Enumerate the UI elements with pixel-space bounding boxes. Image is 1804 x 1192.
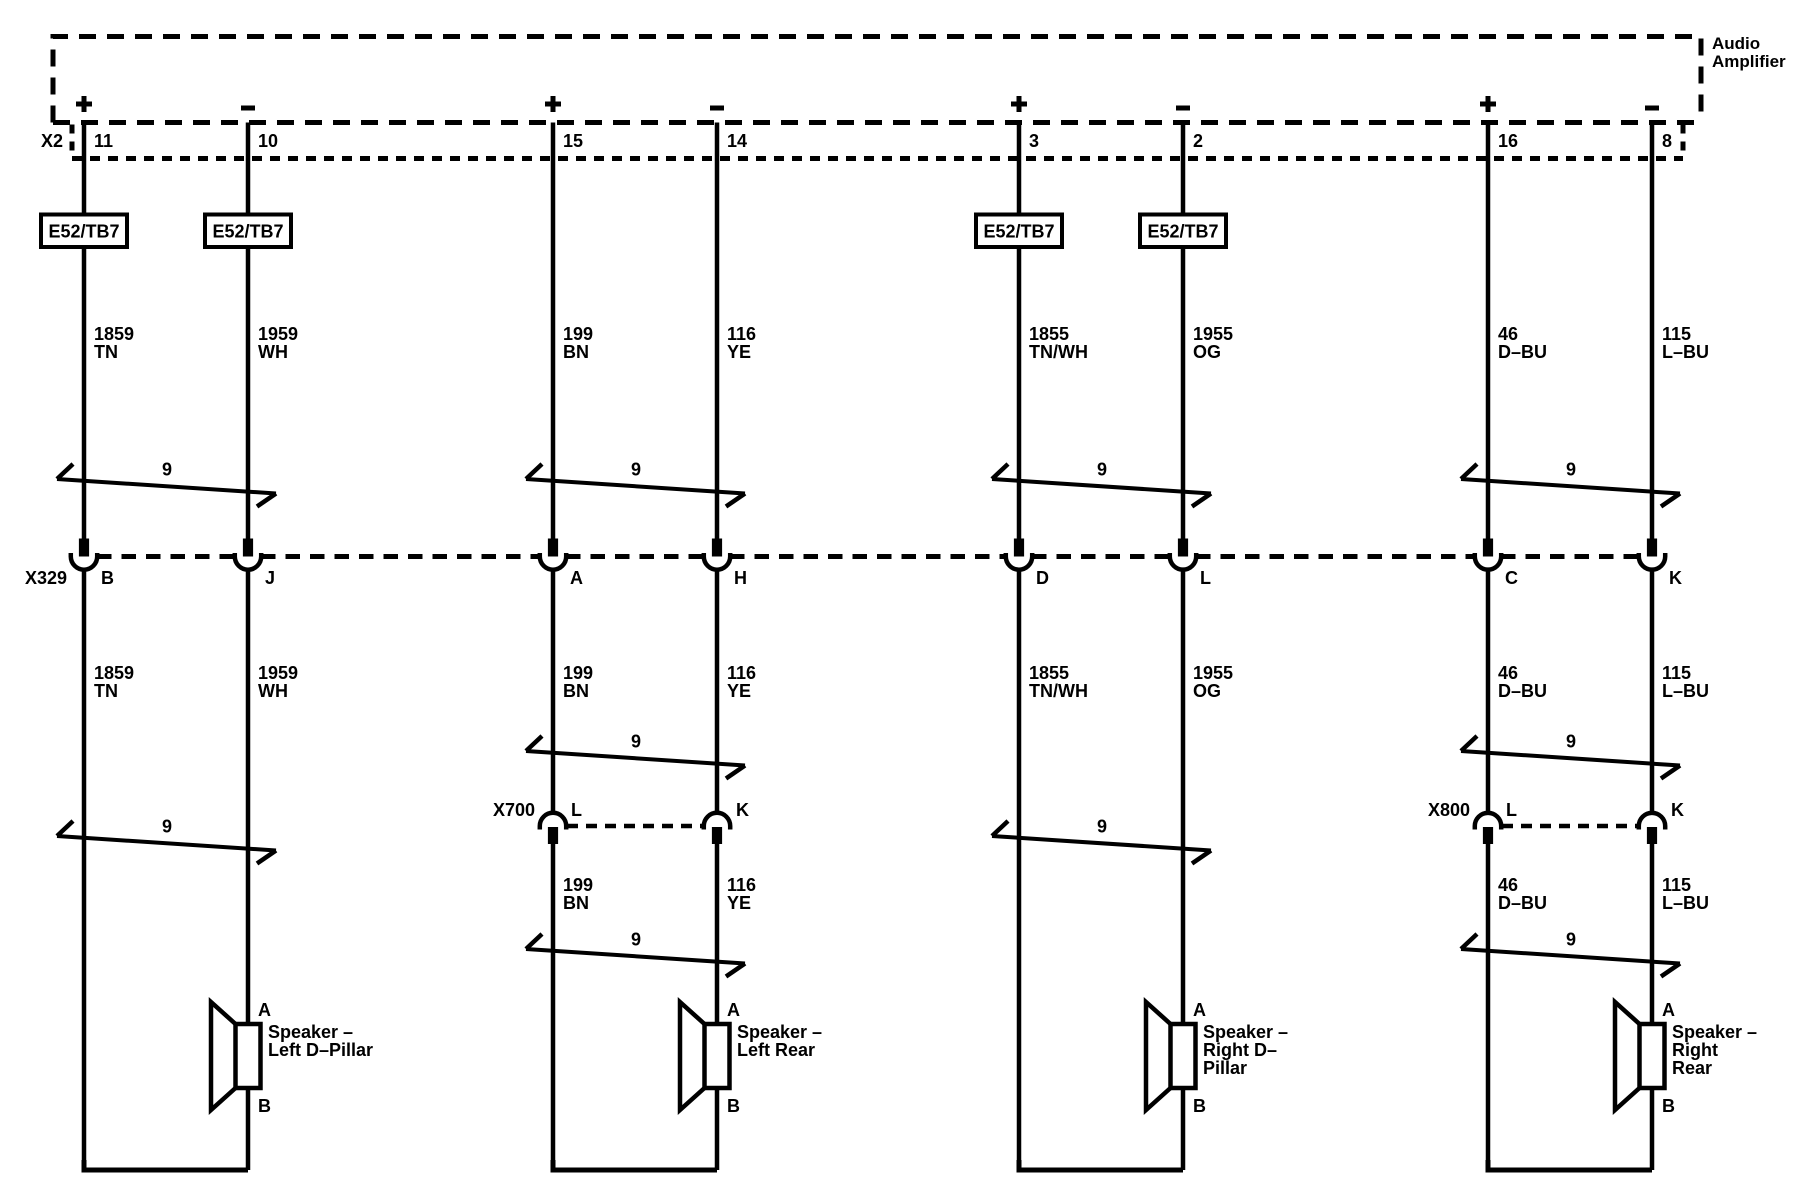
svg-text:OG: OG: [1193, 681, 1221, 701]
twisted pair 9 (below X800, column 4): [1461, 930, 1680, 977]
wire 46 D–BU upper segment: [1486, 123, 1491, 540]
svg-text:E52/TB7: E52/TB7: [212, 222, 283, 242]
svg-text:TN/WH: TN/WH: [1029, 681, 1088, 701]
connector X800 dashed line: [1502, 824, 1638, 829]
wire 46 D–BU segment X329 to X800: [1486, 570, 1491, 813]
return wire bottom loop column 4: [1488, 1088, 1652, 1170]
audio amplifier dashed outline: [53, 37, 1701, 123]
svg-text:1855: 1855: [1029, 324, 1069, 344]
speaker terminal A: [1662, 1000, 1675, 1020]
svg-text:Right D–: Right D–: [1203, 1040, 1277, 1060]
svg-text:L: L: [571, 800, 582, 820]
svg-text:K: K: [1669, 568, 1682, 588]
svg-text:9: 9: [1566, 460, 1576, 480]
speaker terminal B: [1193, 1096, 1206, 1116]
circuit label 1855 TN/WH (upper): [1029, 324, 1088, 362]
wire 1955 OG upper segment: [1181, 123, 1186, 540]
svg-text:A: A: [258, 1000, 271, 1020]
svg-text:46: 46: [1498, 324, 1518, 344]
svg-text:11: 11: [94, 131, 113, 151]
svg-text:1859: 1859: [94, 663, 134, 683]
twisted pair 9 (upper, column 3): [992, 460, 1211, 507]
ground splice label E52/TB7 (left wire): [976, 215, 1062, 248]
speaker Left D–Pillar cone: [211, 1002, 236, 1110]
svg-text:46: 46: [1498, 663, 1518, 683]
svg-text:9: 9: [1566, 930, 1576, 950]
svg-text:E52/TB7: E52/TB7: [1147, 222, 1218, 242]
svg-text:1955: 1955: [1193, 324, 1233, 344]
svg-text:Pillar: Pillar: [1203, 1058, 1247, 1078]
pin 11 label: [94, 131, 113, 151]
return wire bottom loop column 3: [1019, 1088, 1183, 1170]
circuit label 46 D–BU (below X800): [1498, 875, 1547, 913]
ground splice label E52/TB7 (right wire): [1140, 215, 1226, 248]
speaker terminal B: [258, 1096, 271, 1116]
svg-text:BN: BN: [563, 681, 589, 701]
wire 199 BN segment below X700: [551, 844, 556, 1171]
connector X329 terminal K: [1639, 539, 1682, 588]
svg-text:199: 199: [563, 875, 593, 895]
connector X700 dashed line: [567, 824, 703, 829]
circuit label 46 D–BU (below X329): [1498, 663, 1547, 701]
svg-text:X800: X800: [1428, 800, 1470, 820]
svg-text:1855: 1855: [1029, 663, 1069, 683]
svg-text:B: B: [1193, 1096, 1206, 1116]
svg-text:B: B: [727, 1096, 740, 1116]
svg-text:YE: YE: [727, 893, 751, 913]
wire 116 YE segment below X700: [715, 844, 720, 1025]
svg-text:9: 9: [631, 732, 641, 752]
polarity + above pin 3: [1011, 96, 1027, 112]
svg-text:BN: BN: [563, 342, 589, 362]
svg-text:Right: Right: [1672, 1040, 1718, 1060]
circuit label 116 YE (below X700): [727, 875, 756, 913]
connector X2 dotted line: [72, 125, 1683, 159]
svg-text:3: 3: [1029, 131, 1039, 151]
svg-text:B: B: [101, 568, 114, 588]
polarity + above pin 11: [76, 96, 92, 112]
ground splice label E52/TB7 (right wire): [205, 215, 291, 248]
circuit label 1855 TN/WH (below X329): [1029, 663, 1088, 701]
svg-text:115: 115: [1662, 324, 1691, 344]
svg-text:9: 9: [162, 817, 172, 837]
twisted pair 9 (upper, column 1): [57, 460, 276, 507]
svg-text:9: 9: [631, 930, 641, 950]
svg-text:115: 115: [1662, 875, 1691, 895]
wire 1955 OG lower segment: [1181, 570, 1186, 1024]
svg-text:A: A: [570, 568, 583, 588]
connector X800 terminal K: [1639, 800, 1684, 844]
circuit label 199 BN (upper): [563, 324, 593, 362]
svg-text:Speaker –: Speaker –: [737, 1022, 822, 1042]
circuit label 115 L–BU (below X800): [1662, 875, 1709, 913]
svg-text:14: 14: [727, 131, 747, 151]
speaker Left Rear label: [737, 1022, 822, 1060]
connector X800 label: [1428, 800, 1470, 820]
svg-text:E52/TB7: E52/TB7: [983, 222, 1054, 242]
svg-text:1955: 1955: [1193, 663, 1233, 683]
twisted pair 9 (lower, column 3): [992, 817, 1211, 864]
svg-text:9: 9: [1097, 817, 1107, 837]
wire 115 L–BU upper segment: [1650, 123, 1655, 540]
wire 1855 TN/WH upper segment: [1017, 123, 1022, 540]
circuit label 1859 TN (upper): [94, 324, 134, 362]
svg-text:116: 116: [727, 663, 756, 683]
svg-text:D–BU: D–BU: [1498, 681, 1547, 701]
svg-text:D–BU: D–BU: [1498, 342, 1547, 362]
speaker Right D– Pillar body: [1171, 1024, 1196, 1088]
audio amplifier label: [1712, 34, 1786, 71]
polarity - above pin 14: [710, 106, 724, 111]
connector X700 terminal K: [704, 800, 749, 844]
svg-text:B: B: [258, 1096, 271, 1116]
svg-text:B: B: [1662, 1096, 1675, 1116]
speaker Right D– Pillar cone: [1146, 1002, 1171, 1110]
connector X700 label: [493, 800, 535, 820]
svg-text:9: 9: [1097, 460, 1107, 480]
svg-text:115: 115: [1662, 663, 1691, 683]
speaker Left D–Pillar label: [268, 1022, 373, 1060]
svg-text:116: 116: [727, 324, 756, 344]
svg-text:1959: 1959: [258, 663, 298, 683]
svg-text:199: 199: [563, 324, 593, 344]
svg-text:A: A: [1193, 1000, 1206, 1020]
connector X329 terminal A: [540, 539, 583, 588]
pin 15 label: [563, 131, 583, 151]
connector X800 terminal L: [1475, 800, 1517, 844]
speaker Right Rear label: [1672, 1022, 1757, 1078]
circuit label 116 YE (upper): [727, 324, 756, 362]
connector X329 label: [25, 568, 67, 588]
wire 115 L–BU segment below X800: [1650, 844, 1655, 1025]
wire 46 D–BU segment below X800: [1486, 844, 1491, 1171]
connector X329 terminal H: [704, 539, 747, 588]
speaker Left Rear body: [705, 1024, 730, 1088]
svg-text:Speaker –: Speaker –: [1672, 1022, 1757, 1042]
pin 2 label: [1193, 131, 1203, 151]
polarity - above pin 10: [241, 106, 255, 111]
circuit label 115 L–BU (below X329): [1662, 663, 1709, 701]
circuit label 1859 TN (below X329): [94, 663, 134, 701]
svg-text:YE: YE: [727, 342, 751, 362]
svg-text:1859: 1859: [94, 324, 134, 344]
wire 1859 TN upper segment: [82, 123, 87, 540]
polarity - above pin 8: [1645, 106, 1659, 111]
wire 116 YE segment X329 to X700: [715, 570, 720, 813]
svg-text:K: K: [736, 800, 749, 820]
wire 1959 WH lower segment: [246, 570, 251, 1024]
wire 115 L–BU segment X329 to X800: [1650, 570, 1655, 813]
speaker terminal B: [1662, 1096, 1675, 1116]
speaker terminal B: [727, 1096, 740, 1116]
connector X329 terminal D: [1006, 539, 1049, 588]
pin 14 label: [727, 131, 747, 151]
connector X329 terminal J: [235, 539, 275, 588]
circuit label 116 YE (below X329): [727, 663, 756, 701]
twisted pair 9 (upper, column 4): [1461, 460, 1680, 507]
svg-text:YE: YE: [727, 681, 751, 701]
connector X329 terminal L: [1170, 539, 1211, 588]
svg-text:J: J: [265, 568, 275, 588]
wire 199 BN segment X329 to X700: [551, 570, 556, 813]
connector X700 terminal L: [540, 800, 582, 844]
polarity - above pin 2: [1176, 106, 1190, 111]
svg-text:A: A: [1662, 1000, 1675, 1020]
svg-text:L: L: [1200, 568, 1211, 588]
svg-text:10: 10: [258, 131, 278, 151]
speaker Right D– Pillar label: [1203, 1022, 1288, 1078]
wire 116 YE upper segment: [715, 123, 720, 540]
svg-text:D: D: [1036, 568, 1049, 588]
svg-text:E52/TB7: E52/TB7: [48, 222, 119, 242]
svg-text:9: 9: [631, 460, 641, 480]
svg-text:Speaker –: Speaker –: [1203, 1022, 1288, 1042]
connector X329 terminal B: [71, 539, 114, 588]
svg-text:L: L: [1506, 800, 1517, 820]
ground splice label E52/TB7 (left wire): [41, 215, 127, 248]
svg-text:Amplifier: Amplifier: [1712, 52, 1786, 71]
speaker Right Rear body: [1640, 1024, 1665, 1088]
svg-text:Rear: Rear: [1672, 1058, 1712, 1078]
svg-text:46: 46: [1498, 875, 1518, 895]
connector X329 dashed line: [97, 554, 1639, 559]
circuit label 115 L–BU (upper): [1662, 324, 1709, 362]
svg-text:2: 2: [1193, 131, 1203, 151]
svg-text:WH: WH: [258, 342, 288, 362]
svg-text:K: K: [1671, 800, 1684, 820]
svg-text:TN: TN: [94, 342, 118, 362]
svg-text:9: 9: [1566, 732, 1576, 752]
svg-text:Audio: Audio: [1712, 34, 1760, 53]
speaker Left Rear cone: [680, 1002, 705, 1110]
polarity + above pin 16: [1480, 96, 1496, 112]
circuit label 199 BN (below X329): [563, 663, 593, 701]
svg-text:WH: WH: [258, 681, 288, 701]
twisted pair 9 (above X800, column 4): [1461, 732, 1680, 779]
return wire bottom loop column 1: [84, 1088, 248, 1170]
speaker terminal A: [1193, 1000, 1206, 1020]
circuit label 46 D–BU (upper): [1498, 324, 1547, 362]
speaker Right Rear cone: [1615, 1002, 1640, 1110]
svg-text:Left D–Pillar: Left D–Pillar: [268, 1040, 373, 1060]
svg-text:8: 8: [1662, 131, 1672, 151]
speaker terminal A: [727, 1000, 740, 1020]
twisted pair 9 (upper, column 2): [526, 460, 745, 507]
polarity + above pin 15: [545, 96, 561, 112]
svg-text:116: 116: [727, 875, 756, 895]
connector X329 terminal C: [1475, 539, 1518, 588]
circuit label 1955 OG (below X329): [1193, 663, 1233, 701]
wire 1859 TN lower segment: [82, 570, 87, 1170]
svg-text:15: 15: [563, 131, 583, 151]
svg-text:OG: OG: [1193, 342, 1221, 362]
speaker Left D–Pillar body: [236, 1024, 261, 1088]
svg-text:X700: X700: [493, 800, 535, 820]
twisted pair 9 (lower, column 1): [57, 817, 276, 864]
svg-text:16: 16: [1498, 131, 1518, 151]
svg-text:L–BU: L–BU: [1662, 681, 1709, 701]
svg-text:C: C: [1505, 568, 1518, 588]
circuit label 199 BN (below X700): [563, 875, 593, 913]
twisted pair 9 (below X700, column 2): [526, 930, 745, 977]
circuit label 1959 WH (upper): [258, 324, 298, 362]
circuit label 1955 OG (upper): [1193, 324, 1233, 362]
wire 1855 TN/WH lower segment: [1017, 570, 1022, 1170]
return wire bottom loop column 2: [553, 1088, 717, 1170]
wire 199 BN upper segment: [551, 123, 556, 540]
svg-text:TN/WH: TN/WH: [1029, 342, 1088, 362]
svg-text:D–BU: D–BU: [1498, 893, 1547, 913]
svg-text:1959: 1959: [258, 324, 298, 344]
circuit label 1959 WH (below X329): [258, 663, 298, 701]
speaker terminal A: [258, 1000, 271, 1020]
pin 16 label: [1498, 131, 1518, 151]
svg-text:BN: BN: [563, 893, 589, 913]
svg-text:199: 199: [563, 663, 593, 683]
svg-text:TN: TN: [94, 681, 118, 701]
svg-text:H: H: [734, 568, 747, 588]
svg-text:Speaker –: Speaker –: [268, 1022, 353, 1042]
svg-text:Left Rear: Left Rear: [737, 1040, 815, 1060]
svg-text:X2: X2: [41, 131, 63, 151]
wire 1959 WH upper segment: [246, 123, 251, 540]
svg-text:9: 9: [162, 460, 172, 480]
twisted pair 9 (above X700, column 2): [526, 732, 745, 779]
connector X2 label: [41, 131, 63, 151]
pin 8 label: [1662, 131, 1672, 151]
pin 3 label: [1029, 131, 1039, 151]
svg-text:A: A: [727, 1000, 740, 1020]
svg-text:L–BU: L–BU: [1662, 342, 1709, 362]
svg-text:X329: X329: [25, 568, 67, 588]
svg-text:L–BU: L–BU: [1662, 893, 1709, 913]
pin 10 label: [258, 131, 278, 151]
